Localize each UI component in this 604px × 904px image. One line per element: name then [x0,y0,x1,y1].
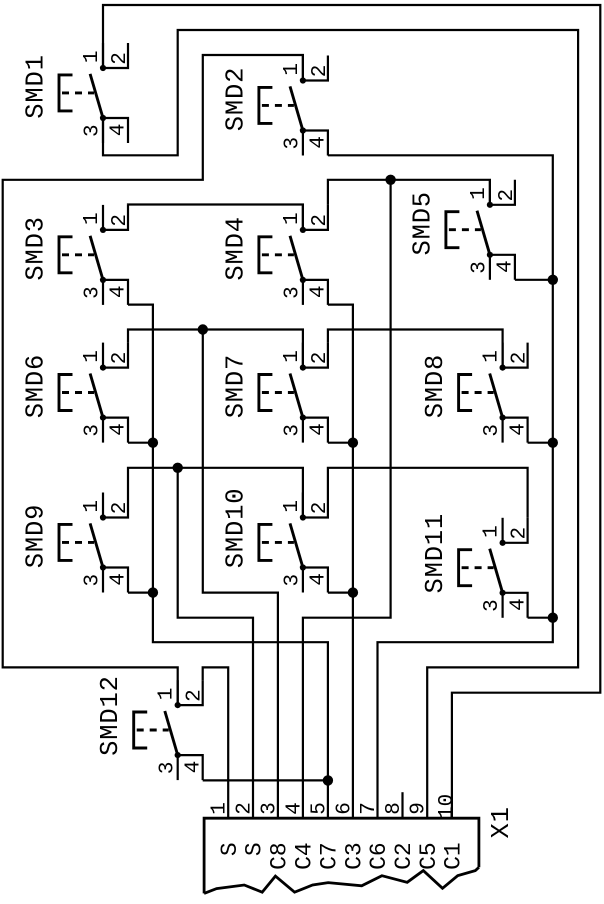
SMD2 pin 4 [303,131,328,156]
svg-text:SMD12: SMD12 [96,675,125,756]
SMD9 contact A [100,514,106,520]
wire net S1: SMD12 pin2 to X1 pin1 [203,667,229,818]
svg-text:3: 3 [258,802,281,815]
SMD3 pin 3 [102,280,104,305]
SMD6 pin 4 [103,418,128,443]
SMD2 actuator [259,87,273,123]
SMD12 pin 3 [177,755,179,780]
SMD12 contact A [175,702,181,708]
SMD12 pin 1 [177,680,179,705]
svg-text:C7: C7 [317,842,343,870]
SMD1 actuator [59,75,73,111]
wire net C6: SMD5 pin4 link [515,279,553,281]
wire net C7: SMD9 pin4 link [128,591,153,593]
svg-text:2: 2 [109,352,132,365]
wire row net: SMD9 pin2 to SMD10 pin1 [128,468,303,518]
SMD12 lever [165,711,178,755]
wire net C8: row tap to X1 pin3 [203,330,278,819]
junction SMD6 pin4 joint [148,438,158,448]
SMD10 contact B [300,564,306,570]
svg-text:9: 9 [408,802,431,815]
SMD8 pin 3 [502,418,504,443]
SMD4 pin 1 [302,205,304,230]
SMD4 pin 2 [303,205,328,230]
svg-text:4: 4 [308,285,331,298]
svg-text:3: 3 [469,261,492,274]
svg-text:X1: X1 [487,806,516,838]
SMD7 contact A [300,365,306,371]
SMD7 pin 1 [302,343,304,368]
svg-text:6: 6 [333,802,356,815]
svg-text:3: 3 [282,286,305,299]
SMD5 actuator [446,212,460,248]
svg-text:2: 2 [509,527,532,540]
SMD1 pin 4 [103,118,128,143]
svg-text:1: 1 [81,350,104,363]
svg-text:4: 4 [108,285,131,298]
switch SMD7 [221,343,332,443]
wire net C7: SMD3 pin4 to X1 pin5 [128,305,328,819]
connector X1 [204,794,516,894]
SMD6 pin 1 [102,343,104,368]
svg-text:2: 2 [309,502,332,515]
svg-text:1: 1 [156,688,179,701]
svg-text:C4: C4 [292,842,318,870]
wire net C6: SMD2 pin4 to X1 pin7 [328,155,553,818]
svg-text:SMD2: SMD2 [221,67,250,131]
junction SMD11 pin4 joint [548,613,558,623]
SMD11 lever [490,549,503,593]
wire net C7: SMD6 pin4 link [128,442,153,444]
SMD3 pin 2 [103,205,128,230]
SMD3 contact A [100,227,106,233]
SMD6 lever [90,374,103,418]
SMD8 pin 1 [502,343,504,368]
SMD8 contact A [500,365,506,371]
svg-text:C6: C6 [366,842,392,870]
SMD1 contact B [100,115,106,121]
svg-text:2: 2 [509,352,532,365]
svg-text:1: 1 [209,802,232,815]
SMD2 pin 3 [302,131,304,156]
switch SMD4 [221,205,332,305]
wire row net: SMD3 pin2 to SMD4 pin1 [128,205,303,230]
junction row3 tap [198,324,208,334]
svg-text:2: 2 [309,65,332,78]
svg-text:3: 3 [82,124,105,137]
SMD7 lever [290,374,303,418]
SMD4 contact A [300,227,306,233]
SMD12 contact B [175,752,181,758]
svg-text:3: 3 [82,286,105,299]
svg-text:4: 4 [283,802,306,815]
SMD4 actuator [259,237,273,273]
SMD6 pin 2 [103,343,128,368]
SMD10 contact A [300,514,306,520]
SMD10 pin 4 [303,568,328,593]
SMD3 actuator [59,237,73,273]
svg-text:4: 4 [507,598,530,611]
svg-text:2: 2 [109,502,132,515]
SMD2 contact B [300,127,306,133]
SMD3 pin 1 [102,205,104,230]
junction SMD9 pin4 joint [148,587,158,597]
SMD1 contact A [100,65,106,71]
SMD10 actuator [259,524,273,560]
switch SMD2 [221,56,332,156]
SMD5 contact B [487,252,493,258]
svg-text:SMD5: SMD5 [408,191,437,255]
wire row net: SMD10 pin2 to SMD11 pin2 [328,468,528,518]
svg-text:SMD1: SMD1 [22,54,51,118]
svg-text:3: 3 [282,424,305,437]
svg-text:C3: C3 [342,842,368,870]
junction row4 tap [173,463,183,473]
wire row net: SMD7 pin2 to SMD8 pin1 [328,330,503,368]
wire net C4: row tap to X1 pin4 [303,180,391,818]
svg-text:1: 1 [281,350,304,363]
wire net C6: SMD8 pin4 link [528,442,553,444]
wire net C5: SMD1 pin3 to X1 pin9 [103,30,578,818]
switch SMD12 [96,675,207,780]
svg-text:4: 4 [308,136,331,149]
wire net S2: row tap to X1 pin2 [178,468,253,818]
SMD11 pin 3 [502,593,504,618]
SMD8 pin 2 [503,343,528,368]
svg-text:SMD11: SMD11 [421,513,450,594]
SMD5 lever [477,211,490,255]
svg-text:SMD10: SMD10 [221,488,250,569]
svg-text:4: 4 [108,573,131,586]
wire net C7: SMD12 pin4 link [203,779,328,781]
svg-text:2: 2 [109,52,132,65]
svg-text:C8: C8 [267,842,293,870]
svg-text:4: 4 [308,423,331,436]
svg-text:3: 3 [481,599,504,612]
svg-text:3: 3 [481,424,504,437]
svg-text:SMD7: SMD7 [221,354,250,418]
junction row2 tap [385,175,395,185]
SMD11 actuator [459,550,473,586]
switch SMD6 [22,343,133,443]
svg-text:C5: C5 [416,842,442,870]
SMD2 pin 1 [302,56,304,81]
SMD6 pin 3 [102,418,104,443]
SMD11 pin 1 [502,518,504,543]
SMD4 contact B [300,277,306,283]
switch SMD9 [22,493,133,593]
SMD3 contact B [100,277,106,283]
svg-text:4: 4 [507,423,530,436]
wire X1 pin8 stub [401,792,403,818]
SMD11 contact A [500,540,506,546]
SMD9 lever [90,523,103,567]
SMD4 lever [290,236,303,280]
svg-text:1: 1 [481,525,504,538]
SMD6 actuator [59,375,73,411]
junction SMD10 pin4 joint [348,587,358,597]
svg-text:1: 1 [468,187,491,200]
SMD12 pin 4 [178,755,203,780]
svg-text:1: 1 [281,212,304,225]
svg-text:1: 1 [481,350,504,363]
wire row net: SMD6 pin2 to SMD7 pin1 [128,330,303,368]
wire net C3: SMD4 pin4 to X1 pin6 [328,305,353,819]
SMD3 pin 4 [103,280,128,305]
SMD5 pin 2 [490,180,515,205]
switch SMD3 [22,205,133,305]
svg-text:4: 4 [495,260,518,273]
SMD1 pin 3 [102,118,104,143]
wire net C3: SMD7 pin4 link [328,442,353,444]
wire net C1: SMD1 pin1 to X1 pin10 [103,5,600,818]
SMD11 pin 2 [503,518,528,543]
SMD3 lever [90,236,103,280]
SMD7 contact B [300,415,306,421]
X1 outline [204,818,479,893]
svg-text:SMD3: SMD3 [22,216,51,280]
SMD6 contact B [100,415,106,421]
SMD5 contact A [487,202,493,208]
SMD4 pin 4 [303,280,328,305]
SMD10 pin 1 [302,493,304,518]
svg-text:SMD4: SMD4 [221,216,250,280]
SMD11 pin 4 [503,593,528,618]
svg-text:8: 8 [383,802,406,815]
SMD8 actuator [459,375,473,411]
svg-text:2: 2 [309,352,332,365]
svg-text:1: 1 [81,212,104,225]
svg-text:4: 4 [308,573,331,586]
svg-text:2: 2 [109,214,132,227]
junction SMD12 pin4 joint [323,775,333,785]
SMD10 pin 3 [302,568,304,593]
switch SMD11 [421,513,531,618]
svg-text:3: 3 [156,761,179,774]
svg-text:S: S [217,842,243,856]
SMD8 lever [490,374,503,418]
SMD2 pin 2 [303,56,328,81]
svg-text:5: 5 [308,802,331,815]
wire net C6: SMD11 pin4 link [528,617,553,619]
SMD12 pin 2 [178,680,203,705]
svg-text:SMD6: SMD6 [22,354,51,418]
junction SMD8 pin4 joint [548,438,558,448]
svg-text:2: 2 [309,214,332,227]
junction SMD7 pin4 joint [348,438,358,448]
svg-text:SMD8: SMD8 [421,354,450,418]
SMD2 lever [290,86,303,130]
SMD11 contact B [500,590,506,596]
svg-text:3: 3 [82,424,105,437]
svg-text:10: 10 [436,794,459,819]
SMD10 lever [290,523,303,567]
SMD12 actuator [134,712,148,748]
SMD1 lever [90,74,103,118]
SMD7 pin 2 [303,343,328,368]
SMD9 contact B [100,564,106,570]
SMD5 pin 3 [489,255,491,280]
SMD8 contact B [500,415,506,421]
switch SMD5 [408,180,519,280]
switch SMD1 [22,43,133,143]
svg-text:3: 3 [282,137,305,150]
SMD5 pin 1 [489,180,491,205]
wire net C3: SMD10 pin4 link [328,591,353,593]
svg-text:2: 2 [496,189,519,202]
SMD1 pin 2 [103,43,128,68]
SMD4 pin 3 [302,280,304,305]
SMD8 pin 4 [503,418,528,443]
svg-text:1: 1 [281,500,304,513]
junction SMD5 pin4 joint [548,275,558,285]
SMD9 actuator [59,524,73,560]
svg-text:2: 2 [234,802,257,815]
SMD7 actuator [259,375,273,411]
svg-text:C2: C2 [391,842,417,870]
svg-text:3: 3 [82,574,105,587]
svg-text:C1: C1 [441,842,467,870]
switch SMD8 [421,343,531,443]
svg-text:4: 4 [182,761,205,774]
SMD10 pin 2 [303,493,328,518]
SMD7 pin 3 [302,418,304,443]
SMD6 contact A [100,365,106,371]
svg-text:1: 1 [81,500,104,513]
SMD7 pin 4 [303,418,328,443]
svg-text:7: 7 [358,802,381,815]
svg-text:SMD9: SMD9 [22,504,51,568]
SMD9 pin 2 [103,493,128,518]
svg-text:4: 4 [108,123,131,136]
svg-text:2: 2 [184,689,207,702]
SMD9 pin 4 [103,568,128,593]
SMD9 pin 1 [102,493,104,518]
svg-text:S: S [242,842,268,856]
svg-text:1: 1 [81,50,104,63]
wire row net: SMD4 pin2 to SMD5 pin1 [328,180,490,205]
wire net S1: SMD2 pin1 to SMD12 pin1 [3,55,303,705]
SMD9 pin 3 [102,568,104,593]
switch SMD10 [221,488,332,593]
SMD1 pin 1 [102,43,104,68]
svg-text:4: 4 [108,423,131,436]
SMD5 pin 4 [490,255,515,280]
SMD2 contact A [300,77,306,83]
svg-text:1: 1 [281,63,304,76]
svg-text:3: 3 [282,574,305,587]
